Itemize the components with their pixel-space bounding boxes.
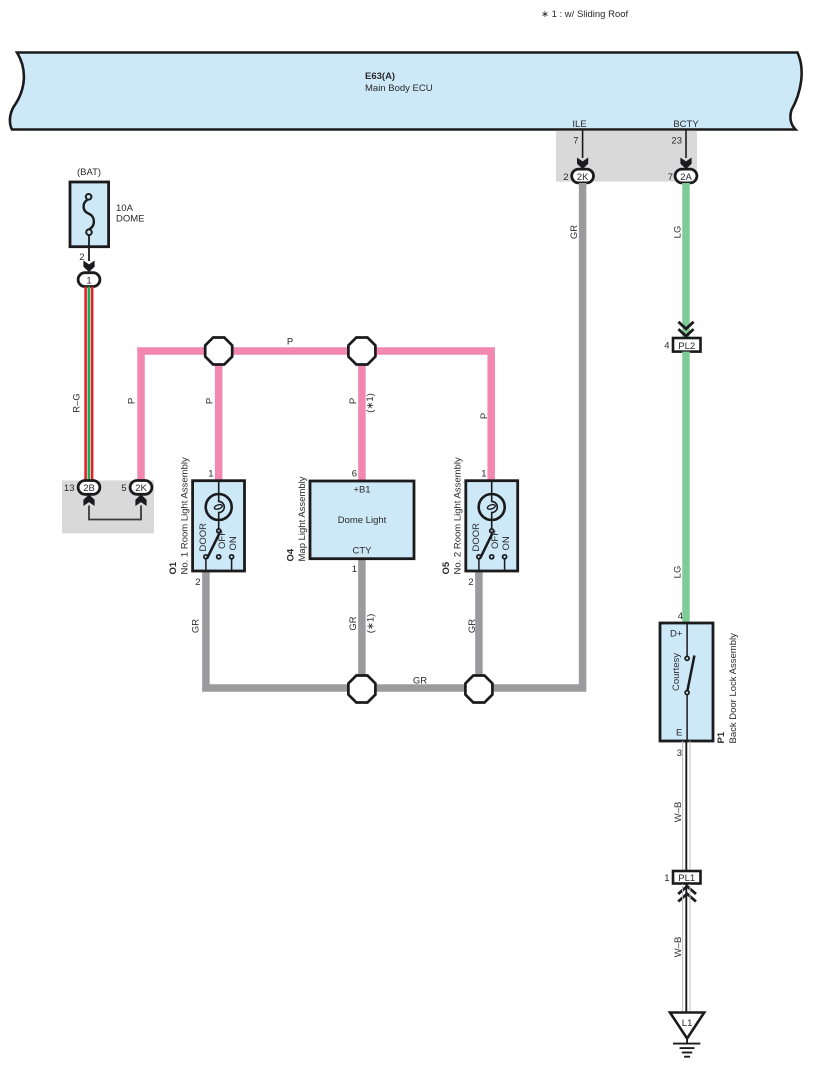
ground symbol <box>673 1043 700 1045</box>
svg-text:DOOR: DOOR <box>471 523 482 552</box>
node oval 1 <box>78 273 100 287</box>
svg-text:5: 5 <box>121 483 126 494</box>
svg-text:W–B: W–B <box>673 802 684 823</box>
O5 No.2 Room Light Assembly box <box>466 481 518 571</box>
svg-text:GR: GR <box>190 619 201 633</box>
svg-text:23: 23 <box>671 136 682 147</box>
O5 DOOR contact <box>477 555 481 559</box>
arrow up into 2B <box>83 495 94 507</box>
svg-text:1: 1 <box>481 469 486 480</box>
O5 switch pivot <box>490 529 494 533</box>
svg-text:Main Body ECU: Main Body ECU <box>365 83 433 94</box>
svg-text:ON: ON <box>501 536 512 550</box>
svg-text:P: P <box>479 413 490 419</box>
wire GR from 2K down and across bus to O1 <box>206 183 583 688</box>
O1 DOOR lead down <box>205 559 207 571</box>
O1 bulb <box>206 494 232 520</box>
wire P main: from 2K(lower) up, across, down to O5 <box>141 351 491 481</box>
female-male chevrons above PL2 <box>678 322 693 336</box>
female-male chevrons below PL1 <box>678 886 696 901</box>
svg-text:6: 6 <box>352 469 357 480</box>
svg-text:OFF: OFF <box>490 530 501 549</box>
ground point L1 triangle <box>670 1013 704 1039</box>
arrow up into 2K lower <box>135 495 146 507</box>
connector oval 2A <box>675 169 697 183</box>
O5 switch blade <box>480 533 492 558</box>
wire LG from PL2 to P1 D+ <box>682 352 690 623</box>
O4 Map Light Assembly box <box>310 481 414 559</box>
O1 switch blade <box>207 533 219 558</box>
junction octagon on GR bus (O5) <box>465 676 492 703</box>
svg-text:Back Door Lock Assembly: Back Door Lock Assembly <box>728 633 739 744</box>
connector oval 2B <box>78 481 100 495</box>
O5 ON lead down <box>504 559 506 571</box>
svg-text:1: 1 <box>208 469 213 480</box>
svg-text:GR: GR <box>569 225 580 239</box>
P1 switch upper contact <box>685 656 689 660</box>
O5 ON contact <box>503 555 507 559</box>
svg-text:Courtesy: Courtesy <box>671 653 682 691</box>
svg-text:4: 4 <box>678 611 683 622</box>
O1 ON lead down <box>231 559 233 571</box>
svg-text:OFF: OFF <box>217 530 228 549</box>
junction octagon on P bus (O1) <box>205 338 232 365</box>
P1 courtesy switch blade <box>688 656 695 691</box>
wire GR from dome CTY down to bus <box>358 559 366 688</box>
svg-text:2: 2 <box>468 577 473 588</box>
svg-text:E63(A): E63(A) <box>365 71 395 82</box>
O5 bulb <box>479 494 505 520</box>
svg-text:Dome Light: Dome Light <box>338 515 387 526</box>
svg-text:E: E <box>676 728 682 739</box>
O1 ON contact <box>230 555 234 559</box>
svg-text:2: 2 <box>563 172 568 183</box>
fuse element <box>86 194 92 200</box>
svg-text:(∗1): (∗1) <box>366 614 377 634</box>
svg-text:ILE: ILE <box>572 119 586 130</box>
svg-text:(BAT): (BAT) <box>77 167 101 178</box>
jumper bracket between 2B and 2K <box>89 506 141 520</box>
svg-text:P: P <box>287 337 293 348</box>
arrow into 2A <box>680 158 691 170</box>
svg-text:D+: D+ <box>670 629 683 640</box>
junction octagon on P bus (dome) <box>348 338 375 365</box>
connector PL2 <box>673 338 701 352</box>
connector PL1 <box>673 871 701 884</box>
svg-text:1: 1 <box>86 275 91 286</box>
svg-text:DOOR: DOOR <box>198 523 209 552</box>
wire P to O1 <box>215 351 223 481</box>
wire LG from 2A down to PL2 <box>682 183 690 338</box>
svg-text:2B: 2B <box>83 483 95 494</box>
svg-text:PL2: PL2 <box>678 341 695 352</box>
svg-text:GR: GR <box>348 616 359 630</box>
wire P to dome +B1 <box>358 351 366 481</box>
O1 OFF contact <box>217 555 221 559</box>
arrow into 2K <box>577 158 588 170</box>
svg-text:+B1: +B1 <box>353 485 370 496</box>
svg-text:O1: O1 <box>168 561 179 574</box>
O5 DOOR lead down <box>478 559 480 571</box>
O1 switch pivot <box>217 529 221 533</box>
svg-text:W–B: W–B <box>673 937 684 958</box>
svg-text:LG: LG <box>673 566 684 579</box>
pin 7 lead from ILE <box>582 130 584 159</box>
P1 internal lead bottom <box>686 695 688 741</box>
svg-text:PL1: PL1 <box>678 873 695 884</box>
svg-text:No. 2 Room Light Assembly: No. 2 Room Light Assembly <box>453 457 464 574</box>
connector shade box (top) <box>556 131 697 182</box>
svg-text:1: 1 <box>352 564 357 575</box>
O1 No.1 Room Light Assembly box <box>193 481 245 571</box>
P1 internal lead top <box>686 623 688 657</box>
svg-text:7: 7 <box>668 172 673 183</box>
wire W-B from PL1 to ground <box>682 884 684 1013</box>
svg-text:2: 2 <box>195 577 200 588</box>
wire W-B from P1 E to PL1 <box>682 741 684 871</box>
connector oval 2K (top) <box>572 169 594 183</box>
fuse 10A DOME box <box>70 182 109 247</box>
svg-text:3: 3 <box>677 748 682 759</box>
svg-text:No. 1 Room Light Assembly: No. 1 Room Light Assembly <box>180 457 191 574</box>
ECU E63(A) band <box>10 53 802 130</box>
connector oval 2K (lower) <box>130 481 152 495</box>
svg-text:R–G: R–G <box>72 393 83 413</box>
ground lead <box>686 1039 688 1044</box>
svg-text:BCTY: BCTY <box>673 119 699 130</box>
svg-text:P: P <box>127 398 138 404</box>
svg-text:GR: GR <box>413 676 427 687</box>
svg-text:7: 7 <box>573 136 578 147</box>
O1 DOOR contact <box>204 555 208 559</box>
arrow into node 1 <box>83 261 94 273</box>
svg-text:10A: 10A <box>116 203 134 214</box>
P1 Back Door Lock Assembly box <box>660 623 713 741</box>
svg-text:LG: LG <box>673 226 684 239</box>
svg-text:DOME: DOME <box>116 214 145 225</box>
svg-text:CTY: CTY <box>353 546 373 557</box>
svg-text:L1: L1 <box>682 1018 693 1029</box>
svg-text:O5: O5 <box>441 561 452 574</box>
svg-text:P: P <box>205 398 216 404</box>
wire GR from O5 down to bus <box>475 571 483 688</box>
P1 switch lower contact <box>685 691 689 695</box>
svg-text:13: 13 <box>64 483 75 494</box>
svg-text:GR: GR <box>467 619 478 633</box>
wire R-G from node 1 to 2B <box>84 287 87 481</box>
svg-text:4: 4 <box>664 341 669 352</box>
svg-text:2A: 2A <box>680 172 692 183</box>
svg-text:P1: P1 <box>716 731 727 743</box>
svg-text:∗ 1 : w/ Sliding Roof: ∗ 1 : w/ Sliding Roof <box>541 9 629 20</box>
O5 OFF contact <box>490 555 494 559</box>
svg-text:ON: ON <box>228 536 239 550</box>
svg-text:2K: 2K <box>135 483 147 494</box>
junction octagon on GR bus (dome) <box>348 676 375 703</box>
svg-text:2K: 2K <box>577 172 589 183</box>
svg-text:P: P <box>348 398 359 404</box>
svg-text:1: 1 <box>664 873 669 884</box>
svg-text:Map Light Assembly: Map Light Assembly <box>297 476 308 561</box>
pin 23 lead from BCTY <box>685 130 687 159</box>
svg-text:(∗1): (∗1) <box>365 393 376 413</box>
connector shade box (lower-left) <box>62 480 154 533</box>
svg-text:O4: O4 <box>286 548 297 561</box>
